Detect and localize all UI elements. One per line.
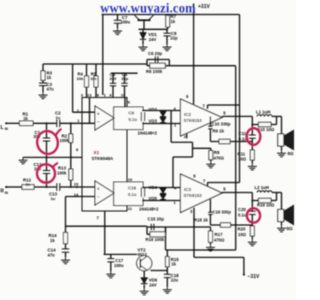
svg-text:X1: X1 bbox=[94, 150, 100, 155]
svg-text:1k: 1k bbox=[171, 261, 176, 266]
svg-text:47u: 47u bbox=[48, 252, 56, 257]
svg-text:1k: 1k bbox=[26, 182, 31, 187]
svg-text:0.1u: 0.1u bbox=[128, 192, 137, 197]
svg-text:L: L bbox=[1, 125, 4, 131]
svg-text:100k: 100k bbox=[57, 171, 67, 176]
svg-text:1k: 1k bbox=[47, 75, 52, 80]
svg-text:C11: C11 bbox=[239, 131, 247, 136]
svg-text:47u: 47u bbox=[47, 87, 55, 92]
svg-text:0.1u: 0.1u bbox=[129, 117, 138, 122]
svg-text:STK6048A: STK6048A bbox=[92, 156, 115, 161]
svg-text:R8: R8 bbox=[214, 150, 220, 155]
svg-text:0.1u: 0.1u bbox=[238, 212, 247, 217]
svg-text:R11: R11 bbox=[238, 151, 246, 156]
svg-text:L1 1uH: L1 1uH bbox=[256, 110, 270, 115]
svg-text:R6 100k: R6 100k bbox=[146, 69, 163, 74]
svg-text:24V: 24V bbox=[149, 37, 157, 42]
svg-text:R: R bbox=[0, 189, 4, 195]
svg-text:10Ω: 10Ω bbox=[238, 232, 247, 237]
svg-text:470Ω: 470Ω bbox=[214, 238, 225, 243]
svg-text:1N4148×2: 1N4148×2 bbox=[138, 130, 158, 135]
svg-text:8Ω: 8Ω bbox=[288, 151, 294, 156]
svg-text:−31V: −31V bbox=[248, 274, 260, 280]
svg-text:+: + bbox=[97, 186, 100, 192]
svg-text:10k: 10k bbox=[77, 76, 84, 81]
svg-text:24V: 24V bbox=[149, 282, 157, 287]
svg-text:STK6153: STK6153 bbox=[184, 118, 203, 123]
svg-text:+31V: +31V bbox=[198, 4, 210, 10]
svg-text:C20: C20 bbox=[238, 207, 246, 212]
svg-text:9012: 9012 bbox=[138, 252, 148, 257]
svg-text:10Ω: 10Ω bbox=[238, 157, 247, 162]
svg-text:30p: 30p bbox=[121, 76, 128, 81]
svg-text:−: − bbox=[97, 120, 100, 126]
svg-text:R16 100k: R16 100k bbox=[146, 237, 165, 242]
svg-text:1u: 1u bbox=[51, 196, 56, 201]
svg-text:VD2: VD2 bbox=[149, 107, 158, 112]
svg-text:STK6153: STK6153 bbox=[184, 193, 203, 198]
svg-text:100k: 100k bbox=[60, 138, 70, 143]
svg-text:R18 1k: R18 1k bbox=[194, 218, 208, 223]
svg-text:470Ω: 470Ω bbox=[214, 156, 225, 161]
svg-text:+: + bbox=[97, 111, 100, 117]
svg-text:100u: 100u bbox=[121, 20, 131, 25]
svg-text:100u: 100u bbox=[114, 263, 124, 268]
svg-text:1N4148×2: 1N4148×2 bbox=[139, 206, 159, 211]
svg-text:VD5: VD5 bbox=[149, 196, 158, 201]
svg-text:IC2: IC2 bbox=[184, 112, 192, 117]
svg-text:R20: R20 bbox=[238, 227, 246, 232]
svg-text:10k: 10k bbox=[90, 76, 97, 81]
svg-text:C15 20p: C15 20p bbox=[148, 217, 165, 222]
svg-text:R19 10Ω: R19 10Ω bbox=[257, 202, 275, 207]
svg-text:8Ω: 8Ω bbox=[287, 226, 293, 231]
svg-text:−: − bbox=[97, 195, 100, 201]
svg-text:VD3: VD3 bbox=[149, 118, 158, 123]
svg-text:330: 330 bbox=[110, 76, 117, 81]
svg-text:22u: 22u bbox=[171, 278, 179, 283]
svg-text:13: 13 bbox=[87, 93, 92, 98]
svg-text:22p: 22p bbox=[170, 36, 178, 41]
svg-text:1u: 1u bbox=[56, 115, 61, 120]
svg-text:1k: 1k bbox=[171, 19, 176, 24]
svg-text:R9 1k: R9 1k bbox=[213, 128, 225, 133]
svg-text:1k: 1k bbox=[50, 238, 55, 243]
svg-text:10: 10 bbox=[121, 93, 126, 98]
svg-text:10: 10 bbox=[128, 177, 133, 182]
svg-text:R17: R17 bbox=[215, 232, 224, 237]
svg-text:VD4: VD4 bbox=[149, 185, 158, 190]
svg-text:L2 1uH: L2 1uH bbox=[255, 185, 269, 190]
svg-text:15: 15 bbox=[74, 181, 79, 186]
svg-text:C6 20p: C6 20p bbox=[148, 51, 162, 56]
svg-text:C9: C9 bbox=[129, 111, 135, 116]
svg-text:www.wuyazi.com: www.wuyazi.com bbox=[100, 0, 196, 15]
svg-text:C19 330p: C19 330p bbox=[213, 210, 232, 215]
svg-text:C16: C16 bbox=[128, 186, 137, 191]
svg-text:C10 330p: C10 330p bbox=[212, 122, 231, 127]
svg-text:IC3: IC3 bbox=[184, 187, 192, 192]
svg-text:1k: 1k bbox=[23, 116, 28, 121]
svg-text:14: 14 bbox=[74, 192, 79, 197]
